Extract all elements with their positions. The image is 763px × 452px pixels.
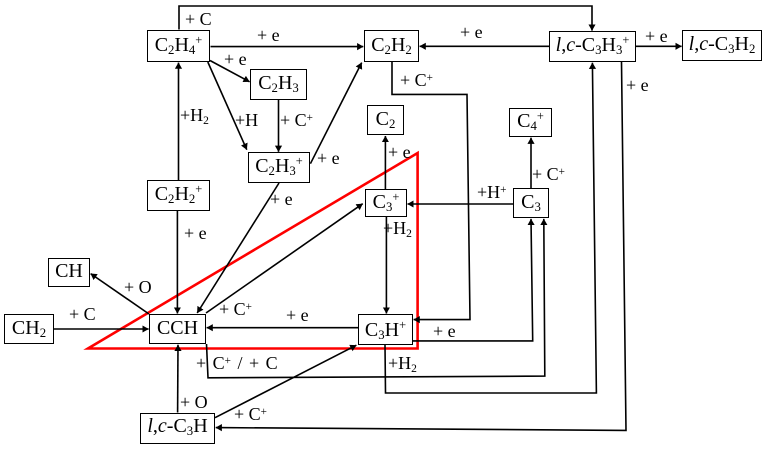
arrow l,c-C3H3+ to l,c-C3H2 (+ e) — [636, 45, 682, 47]
arrow l,c-C3H to CCH (+ O) — [177, 345, 179, 413]
arrow C2H3+ to CCH (+ e) — [197, 183, 279, 313]
arrow C3+ to C3H+ (+H2) — [385, 217, 387, 314]
label + e right vertical — [626, 76, 649, 94]
label + e C2H4+ to C2H2 — [257, 26, 280, 44]
label + e l,c-C3H3+ to C2H2 — [460, 23, 483, 41]
arrow C2H3+ to C2H2 (+ e) — [310, 63, 361, 164]
label + e C3H+ to CCH — [286, 306, 309, 324]
label + O CCH to CH — [124, 278, 152, 296]
wire C3H+ to l,c-C3H3+ (+H2) — [385, 63, 596, 393]
label + C+ C3 to C4+ — [532, 165, 565, 183]
box l,c-C3H — [140, 413, 215, 445]
arrow C3+ to C2 (+ e) — [384, 136, 386, 189]
arrow l,c-C3H to C3H+ (+ C+) — [215, 345, 356, 418]
box C2H2+ — [147, 180, 210, 211]
arrow CH2 to CCH (+ C) — [54, 328, 149, 330]
wire top loop C2H4+ to l,c-C3H3+ (+ C) — [179, 6, 592, 31]
box C3 — [513, 188, 549, 218]
label + e C2H3+ to CCH — [270, 190, 293, 208]
label + C CH2 to CCH — [69, 305, 96, 323]
wire C3H+ to C3 (+ e) — [413, 219, 533, 341]
label +H2 C3+ to C3H+ — [383, 219, 412, 237]
wire l,c-C3H3+ to l,c-C3H (+ e) — [216, 62, 626, 430]
wire CCH to C3 (+ C+ / + C) — [207, 219, 545, 378]
box C3+ — [365, 189, 407, 217]
label + C+ C2H2 branch — [400, 71, 433, 89]
label + e C2H4+ to C2H3 — [224, 50, 247, 68]
label + e C3+ to C2 — [388, 143, 411, 161]
box CCH — [149, 314, 206, 344]
wire C2H2 to C3H+ (+ C+) — [392, 62, 470, 320]
label + C+ l,c-C3H to C3H+ — [234, 405, 267, 423]
arrow CCH to CH (+ O) — [91, 274, 149, 314]
label + C+ / + C CCH to C3 — [196, 354, 278, 372]
box l,c-C3H2 — [682, 30, 762, 61]
arrow C3 to C4+ (+ C+) — [530, 138, 532, 188]
arrow C3H+ to CCH (+ e) — [207, 327, 358, 329]
label +H+ C3 to C3+ — [477, 183, 506, 201]
label + e C2H3+ to C2H2 — [317, 149, 340, 167]
arrow C2H2+ to CCH (+ e) — [176, 211, 178, 314]
box C2H3+ — [248, 152, 310, 183]
box C3H+ — [358, 314, 413, 345]
arrow l,c-C3H3+ to C2H2 (+ e) — [420, 45, 549, 47]
label + e C2H2+ to CCH — [184, 224, 207, 242]
box C4+ — [509, 108, 552, 137]
label + e C3H+ to C3 — [433, 322, 456, 340]
label + O l,c-C3H to CCH — [180, 393, 208, 411]
box l,c-C3H3+ — [549, 31, 636, 62]
arrow C2H4+ to C2H3 (+ e) — [210, 61, 250, 82]
label + C top loop — [185, 10, 212, 28]
arrow CCH to C3+ (+ C+) — [206, 204, 363, 313]
box C2H4+ — [147, 30, 210, 62]
arrow C2H2+ to C2H4+ (+H2) — [178, 63, 180, 180]
arrow C3 to C3+ (+H+) — [408, 203, 514, 205]
box C2H3 — [250, 69, 307, 100]
box C2H2 — [364, 30, 419, 62]
label + C+ CCH to C3+ — [219, 300, 252, 318]
label + C+ C2H3 to C2H3+ — [280, 111, 313, 129]
label + e l,c-C3H3+ to l,c-C3H2 — [645, 27, 668, 45]
label +H C2H4+ to C2H3+ — [235, 111, 258, 129]
label +H2 C3H+ to l,c-C3H3+ — [388, 354, 417, 372]
arrow C2H4+ to C2H2 (+ e) — [211, 46, 364, 48]
box C2 — [367, 105, 404, 135]
label +H2 C2H2+ to C2H4+ — [180, 106, 209, 124]
box CH — [48, 258, 90, 287]
box CH2 — [4, 314, 54, 344]
arrow C2H3 to C2H3+ (+ C+) — [278, 100, 280, 152]
red triangle — [88, 153, 418, 349]
arrow C2H4+ to C2H3+ (+H) — [208, 62, 247, 150]
